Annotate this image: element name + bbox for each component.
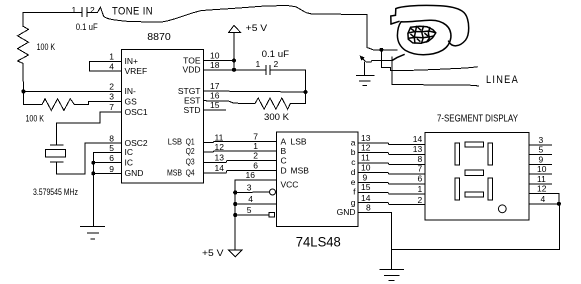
wire cap to STGT node [305, 70, 307, 104]
wire GND pin9 [93, 172, 121, 174]
svg-text:VREF: VREF [125, 66, 148, 76]
decimal point [498, 205, 506, 213]
wire to earth arrow [362, 58, 392, 62]
pin 5 square bubble [269, 212, 275, 217]
wire IC pin5 tie [93, 152, 121, 226]
svg-text:OSC1: OSC1 [125, 107, 148, 117]
svg-text:STD: STD [184, 105, 201, 115]
svg-text:0.1 uF: 0.1 uF [262, 49, 290, 59]
segment f [455, 143, 459, 165]
svg-text:+5 V: +5 V [246, 23, 268, 34]
svg-text:2: 2 [109, 81, 114, 91]
phone body [397, 20, 451, 54]
svg-text:IC: IC [125, 157, 134, 167]
capacitor C1 0.1uF [82, 8, 98, 17]
wire IC pin6 [93, 162, 121, 164]
wire c [358, 163, 425, 165]
svg-text:74LS48: 74LS48 [296, 233, 341, 249]
svg-text:12: 12 [215, 142, 225, 152]
svg-text:16: 16 [210, 91, 220, 101]
wire Q4 to D [204, 170, 277, 173]
segment g [465, 170, 483, 175]
svg-text:C: C [281, 156, 287, 166]
segment d [465, 192, 483, 197]
svg-text:10: 10 [361, 163, 371, 173]
wire Q3 to C [204, 161, 277, 163]
telephone drawing [391, 5, 469, 60]
IC U2 74LS48 body [277, 132, 359, 227]
svg-text:d: d [351, 167, 356, 177]
svg-text:8: 8 [366, 203, 371, 213]
wire LINE lower [392, 84, 478, 86]
svg-text:7: 7 [253, 131, 258, 141]
8870 pin numbers right [210, 51, 224, 174]
svg-text:8: 8 [417, 154, 422, 164]
svg-text:1: 1 [256, 59, 261, 69]
wire LT pin3 [235, 191, 269, 194]
svg-text:TONE IN: TONE IN [112, 6, 153, 18]
wire e [358, 183, 425, 185]
wire R3 to node [290, 102, 305, 104]
svg-text:4: 4 [248, 194, 253, 204]
wire phone right terminal to LINE2 [391, 57, 393, 84]
svg-text:12: 12 [537, 184, 547, 194]
wire GND pin8 74LS48 [358, 213, 392, 270]
svg-text:100 K: 100 K [37, 42, 56, 52]
svg-text:6: 6 [109, 153, 114, 163]
svg-text:15: 15 [210, 100, 220, 110]
svg-text:11: 11 [361, 153, 370, 163]
segment c [488, 178, 492, 200]
svg-text:D: D [281, 165, 287, 175]
wire Q1 to A [204, 141, 277, 144]
handset [391, 5, 469, 45]
wire d [358, 173, 425, 175]
74LS48 inside labels [281, 136, 357, 217]
svg-text:2: 2 [253, 151, 258, 161]
wire g [358, 202, 425, 204]
wire VCC pin16 [235, 180, 276, 250]
power +5V top symbol [229, 25, 241, 32]
wire crystal bottom to OSC2 [57, 143, 122, 174]
svg-text:1: 1 [72, 5, 77, 15]
8870 pin numbers left [109, 52, 114, 174]
svg-text:Q1: Q1 [186, 136, 195, 146]
7-segment display DS1 body [425, 132, 529, 220]
svg-text:13: 13 [215, 152, 225, 162]
wire BI/RBO pin4 [235, 203, 276, 205]
svg-text:A: A [281, 136, 287, 146]
svg-text:EST: EST [184, 95, 201, 105]
svg-text:2: 2 [274, 59, 279, 69]
svg-text:LINEA: LINEA [486, 74, 519, 86]
node pin3 tie [233, 191, 237, 195]
node TOE junction [232, 59, 236, 63]
svg-text:0.1 uF: 0.1 uF [76, 22, 98, 32]
display pin numbers left [413, 134, 423, 205]
display pin numbers right [537, 135, 547, 204]
svg-text:b: b [351, 147, 356, 157]
phone cord to line junction [392, 55, 404, 61]
svg-text:14: 14 [215, 163, 225, 173]
svg-text:VCC: VCC [281, 180, 299, 190]
svg-text:7: 7 [109, 102, 114, 112]
wire b [358, 153, 425, 155]
wire input top-left [23, 12, 82, 26]
svg-text:1: 1 [253, 141, 258, 151]
node pin4 tie [233, 202, 237, 206]
svg-text:3: 3 [247, 183, 252, 193]
wire VDD pin18 [204, 69, 266, 71]
svg-text:14: 14 [361, 193, 371, 203]
svg-text:5: 5 [109, 143, 114, 153]
svg-text:7: 7 [417, 164, 422, 174]
wire f [358, 193, 425, 194]
svg-text:9: 9 [363, 172, 368, 182]
wire IN- [23, 90, 121, 92]
svg-text:4: 4 [541, 194, 546, 204]
wire phone junction down to LINE1 [381, 50, 390, 71]
svg-text:14: 14 [413, 134, 423, 144]
wire LINE upper [391, 67, 477, 71]
svg-text:IN+: IN+ [125, 56, 139, 66]
wire R2 to GS pin 3 [76, 102, 122, 105]
svg-text:6: 6 [417, 174, 422, 184]
crystal Y1 3.579545 MHz [46, 145, 66, 162]
svg-text:3.579545 MHz: 3.579545 MHz [33, 187, 78, 197]
display right stubs pins 3,5,9,10,11,12 [529, 144, 552, 146]
svg-text:f: f [353, 187, 356, 197]
74LS48 pin numbers left [246, 131, 259, 215]
svg-text:18: 18 [210, 60, 220, 70]
svg-text:8870: 8870 [147, 32, 171, 43]
wire STGT pin17 [204, 91, 306, 92]
node rail/IN- junction [21, 89, 25, 93]
svg-text:17: 17 [210, 81, 220, 91]
pin 3 bubble [270, 189, 276, 195]
74LS48 pin numbers right [361, 133, 371, 213]
wire squiggle drop to phone junction [367, 15, 397, 50]
wire TOE pin10 [204, 60, 235, 62]
svg-text:g: g [351, 197, 356, 207]
op-amp feedback loop IN+/VREF box [90, 61, 122, 71]
node pin9 tie [91, 171, 95, 175]
svg-text:IC: IC [125, 147, 134, 157]
wire +5V to TOE/VDD [233, 32, 235, 70]
svg-text:GND: GND [337, 207, 356, 217]
svg-text:2: 2 [417, 195, 422, 205]
svg-text:2: 2 [90, 5, 95, 15]
segment a [465, 142, 483, 147]
svg-text:LSB: LSB [291, 136, 307, 146]
svg-text:1: 1 [417, 184, 422, 194]
earth ground bars [357, 75, 374, 85]
wire OSC1 to crystal [57, 112, 122, 145]
svg-text:7-SEGMENT DISPLAY: 7-SEGMENT DISPLAY [437, 113, 518, 125]
svg-text:VDD: VDD [183, 65, 201, 75]
node phone junction [379, 48, 383, 52]
svg-text:16: 16 [246, 170, 256, 180]
svg-text:10: 10 [537, 164, 547, 174]
svg-text:5: 5 [539, 145, 544, 155]
svg-text:11: 11 [537, 174, 546, 184]
svg-text:B: B [281, 146, 287, 156]
resistor R3 300K [255, 98, 290, 109]
svg-text:Q4: Q4 [186, 167, 195, 177]
wire a to display [358, 143, 425, 145]
svg-text:1: 1 [109, 52, 114, 62]
ground 74LS48 [380, 270, 404, 281]
svg-text:6: 6 [253, 160, 258, 170]
svg-text:MSB: MSB [167, 167, 182, 177]
svg-text:a: a [351, 137, 356, 147]
svg-text:Q2: Q2 [186, 146, 195, 156]
svg-text:STGT: STGT [178, 86, 201, 96]
svg-text:Q3: Q3 [186, 157, 195, 167]
node display pin4 junction [557, 202, 561, 206]
capacitor C2 0.1uF [266, 65, 306, 74]
svg-text:5: 5 [247, 205, 252, 215]
svg-text:300 K: 300 K [264, 112, 289, 122]
wire earth drop [364, 62, 366, 75]
svg-text:13: 13 [413, 144, 423, 154]
ground 8870 [81, 226, 105, 239]
resistor R2 100K [39, 99, 76, 111]
keypad grid [408, 26, 436, 43]
wire gnd bus to display pin4 [392, 204, 560, 250]
svg-text:c: c [351, 157, 356, 167]
8870 inside labels [125, 55, 201, 178]
segment b [488, 143, 492, 165]
svg-text:IN-: IN- [125, 86, 137, 96]
node STGT junction [304, 90, 308, 94]
svg-text:LSB: LSB [168, 136, 182, 146]
svg-text:12: 12 [361, 143, 371, 153]
wire STD pin15 stub [204, 109, 226, 111]
svg-text:9: 9 [109, 164, 114, 174]
IC U1 8870 body [122, 50, 204, 184]
svg-text:3: 3 [109, 92, 114, 102]
wire Q2 to B [204, 150, 277, 153]
svg-text:100 K: 100 K [26, 114, 45, 124]
wire left rail [23, 63, 39, 104]
power +5V down arrow 74LS48 [229, 250, 242, 257]
earth arrowhead [360, 55, 365, 60]
segment e [455, 178, 459, 200]
svg-text:GND: GND [125, 168, 144, 178]
svg-text:3: 3 [539, 135, 544, 145]
node pin6 tie [91, 161, 95, 165]
svg-text:e: e [351, 177, 356, 187]
node pin5 tie [233, 213, 237, 217]
resistor R1 100K [18, 26, 29, 63]
svg-text:GS: GS [125, 96, 138, 106]
svg-text:MSB: MSB [291, 165, 310, 175]
svg-text:11: 11 [215, 132, 224, 142]
display pin4 box [529, 194, 559, 204]
node VDD junction [232, 68, 236, 72]
wire RBI pin5 [235, 214, 269, 216]
wire TONE IN squiggle to phone [98, 6, 367, 22]
svg-text:13: 13 [361, 133, 371, 143]
svg-text:15: 15 [361, 182, 371, 192]
svg-text:9: 9 [539, 154, 544, 164]
svg-text:4: 4 [109, 61, 114, 71]
wire EST pin16 [204, 101, 256, 104]
svg-text:+5 V: +5 V [202, 248, 224, 259]
